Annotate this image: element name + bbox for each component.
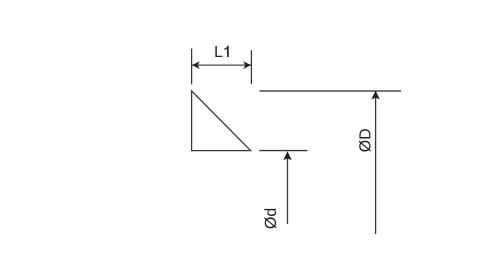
label D xyxy=(359,129,371,152)
leader line for d xyxy=(287,153,289,224)
label d xyxy=(264,209,276,229)
object line top (large diameter) xyxy=(260,90,402,92)
dimension L1 arrowhead right xyxy=(243,61,251,69)
leader arrowhead D xyxy=(371,91,379,100)
object line small diameter xyxy=(259,150,307,152)
dimension L1 extension line right xyxy=(250,50,252,84)
dimension L1 arrowhead left xyxy=(192,61,200,69)
leader line for D xyxy=(375,93,377,234)
dimension L1 extension line left xyxy=(191,49,193,85)
dimension L1 line xyxy=(192,64,251,66)
leader arrowhead d xyxy=(283,151,291,160)
label L1 xyxy=(215,46,228,57)
chamfer triangle outline xyxy=(192,91,251,151)
